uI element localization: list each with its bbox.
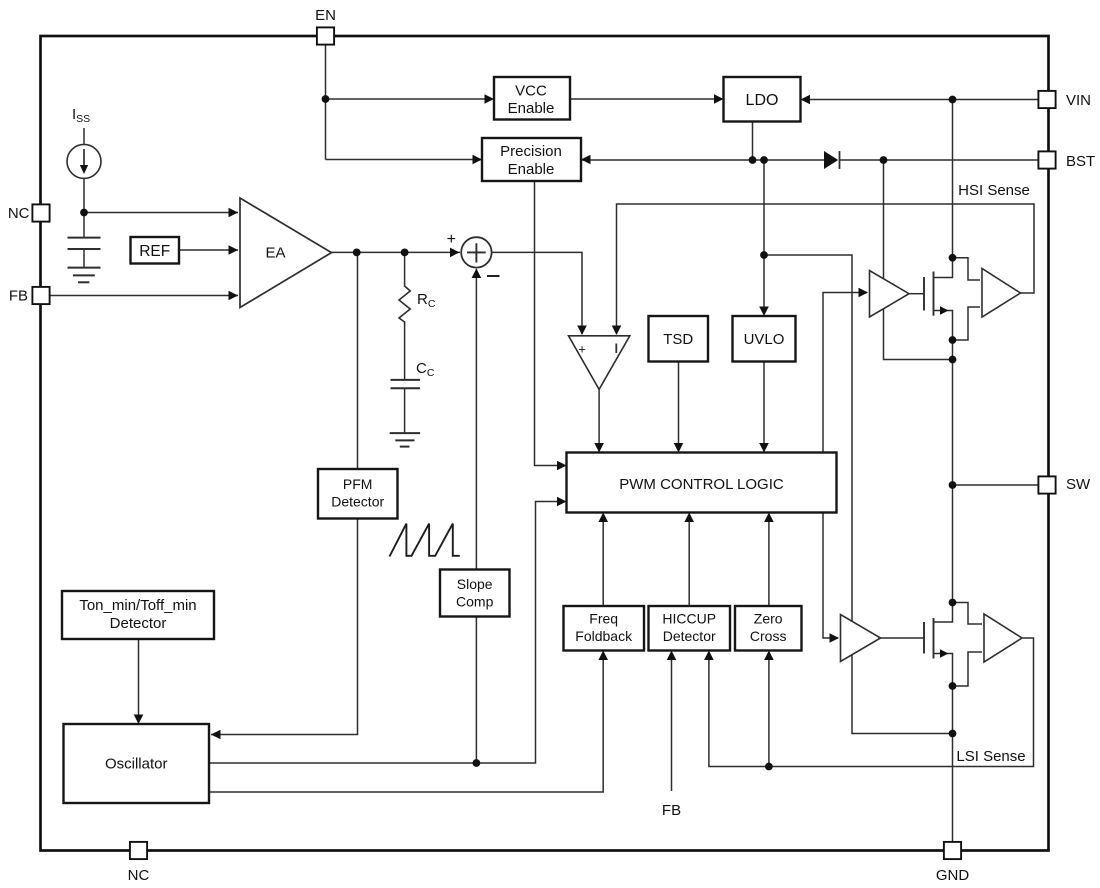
- pin BST: [1038, 151, 1055, 168]
- node BST driver: [880, 156, 888, 164]
- wire Ton detector to oscillator: [138, 639, 140, 722]
- svg-text:HSI Sense: HSI Sense: [958, 182, 1030, 199]
- arrow into PWM from comparator: [594, 443, 604, 453]
- arrow into Precision Enable right: [581, 155, 591, 165]
- wire oscillator to PWM: [209, 502, 565, 764]
- node ISS: [80, 209, 88, 217]
- wire ISS node to EA: [84, 212, 238, 214]
- wire TSD to PWM: [678, 362, 680, 451]
- wire PWM to HSI driver: [823, 293, 867, 453]
- arrow into oscillator top: [134, 715, 144, 725]
- wire EA to PFM detector: [357, 252, 359, 470]
- wire Zero Cross to PWM: [768, 515, 770, 607]
- label VIN: [1066, 92, 1091, 109]
- pin SW: [1038, 476, 1055, 493]
- block HICCUP Detector: [649, 606, 731, 651]
- label SW: [1066, 476, 1091, 493]
- block REF: [131, 237, 180, 264]
- arrow into PWM bottom 3: [764, 513, 774, 523]
- arrow into UVLO top: [759, 307, 769, 317]
- wire node to RC: [404, 252, 406, 283]
- svg-text:NC: NC: [8, 205, 30, 222]
- label plus summing: [447, 231, 456, 248]
- wire slope comp down: [475, 617, 477, 764]
- label NC left: [8, 205, 30, 222]
- svg-text:Comp: Comp: [456, 594, 494, 610]
- pin VIN: [1038, 91, 1055, 108]
- label RC: [417, 291, 436, 310]
- sense amp LSI: [953, 603, 1023, 687]
- svg-text:GND: GND: [936, 867, 970, 884]
- arrow into LSI driver: [830, 633, 840, 643]
- arrow into PWM from UVLO: [759, 443, 769, 453]
- svg-text:EA: EA: [265, 245, 285, 262]
- wire EN vertical: [325, 44, 327, 160]
- wire EA output: [332, 251, 461, 253]
- wire BST to HSI driver: [883, 160, 885, 279]
- svg-text:Precision: Precision: [500, 143, 562, 160]
- node UVLO branch: [760, 251, 768, 259]
- current source ISS: [67, 128, 101, 178]
- svg-text:EN: EN: [315, 7, 336, 24]
- arrow into EA in2: [229, 245, 239, 255]
- svg-text:Zero: Zero: [754, 611, 783, 627]
- wire VCC Enable to LDO: [570, 98, 722, 100]
- node EN branch: [322, 95, 330, 103]
- wire REF to EA: [179, 249, 238, 251]
- node LS gnd: [949, 730, 957, 738]
- wire slope comp to summing junction: [475, 269, 477, 570]
- svg-text:Oscillator: Oscillator: [105, 756, 168, 773]
- block Precision Enable: [482, 138, 581, 181]
- sense amp HSI: [953, 258, 1021, 340]
- ground CC: [390, 433, 420, 447]
- svg-text:Enable: Enable: [508, 161, 555, 178]
- wire VIN rail down: [952, 100, 954, 258]
- wire Freq Foldback to PWM: [602, 515, 604, 607]
- wire oscillator to Freq Foldback: [209, 653, 603, 793]
- block Freq Foldback: [564, 606, 645, 651]
- svg-text:PFM: PFM: [343, 476, 373, 492]
- block PWM CONTROL LOGIC: [567, 453, 837, 513]
- svg-text:Detector: Detector: [663, 628, 716, 644]
- wire comparator to PWM: [598, 389, 600, 450]
- arrow into LDO right: [801, 95, 811, 105]
- arrow into Precision Enable left: [473, 155, 483, 165]
- svg-text:NC: NC: [128, 867, 150, 884]
- node EA output 2: [401, 249, 409, 257]
- svg-text:LSI Sense: LSI Sense: [956, 748, 1025, 765]
- svg-text:Enable: Enable: [508, 100, 555, 117]
- svg-text:Detector: Detector: [110, 615, 167, 632]
- block LDO: [724, 77, 801, 122]
- summing junction: [461, 237, 491, 267]
- arrow into comparator I: [612, 326, 622, 336]
- block Oscillator: [64, 724, 210, 803]
- label LSI Sense: [956, 748, 1025, 765]
- arrow into summing bottom: [472, 269, 482, 279]
- arrow into PWM bottom 2: [684, 513, 694, 523]
- node HS source: [949, 336, 957, 344]
- svg-text:Detector: Detector: [331, 494, 384, 510]
- svg-text:HICCUP: HICCUP: [662, 611, 716, 627]
- arrow into EA in3: [229, 291, 239, 301]
- op-amp EA: [240, 198, 332, 308]
- label EN: [315, 7, 336, 24]
- label GND: [936, 867, 970, 884]
- wire HICCUP to PWM: [688, 515, 690, 607]
- arrow into PWM from TSD: [674, 443, 684, 453]
- diode bootstrap: [824, 151, 840, 169]
- node SW: [949, 481, 957, 489]
- wire zero cross branch: [768, 653, 770, 767]
- wire PWM to LSI driver: [823, 513, 838, 639]
- node LDO bottom: [749, 156, 757, 164]
- block PFM Detector: [318, 469, 398, 519]
- arrow into VCC Enable: [485, 94, 495, 104]
- label minus summing: [487, 275, 500, 277]
- MOSFET low-side: [881, 604, 953, 684]
- node HS drain: [949, 254, 957, 262]
- arrow into comparator plus: [577, 326, 587, 336]
- label FB bottom: [662, 802, 681, 819]
- arrow into PWM bottom 1: [598, 513, 608, 523]
- svg-text:FB: FB: [9, 288, 28, 305]
- arrow into summing left: [450, 248, 460, 258]
- pin NC left: [32, 204, 49, 221]
- svg-text:Ton_min/Toff_min: Ton_min/Toff_min: [79, 597, 196, 614]
- wire BST node to UVLO: [763, 160, 765, 314]
- wire VIN to LDO: [802, 99, 1039, 101]
- ground soft-start: [68, 268, 101, 283]
- capacitor CC: [391, 380, 421, 433]
- label HSI Sense: [958, 182, 1030, 199]
- svg-text:VIN: VIN: [1066, 92, 1091, 109]
- arrow into LDO left: [714, 94, 724, 104]
- arrow into HICCUP from LSI: [704, 651, 714, 661]
- wire HSI sense loop: [617, 204, 1035, 334]
- label CC: [416, 360, 435, 379]
- pin GND: [944, 842, 961, 859]
- arrow into Zero Cross: [764, 651, 774, 661]
- wire FB to EA: [49, 295, 238, 297]
- pin NC bottom: [130, 842, 147, 859]
- driver high-side: [870, 271, 910, 318]
- arrow into Freq Foldback: [598, 651, 608, 661]
- arrow into HICCUP from FB: [667, 651, 677, 661]
- svg-text:BST: BST: [1066, 153, 1095, 170]
- svg-text:+: +: [578, 342, 586, 357]
- block TSD: [649, 316, 709, 362]
- pin EN: [317, 27, 334, 44]
- svg-text:LDO: LDO: [746, 92, 779, 109]
- svg-text:Slope: Slope: [457, 576, 493, 592]
- label BST: [1066, 153, 1095, 170]
- label ISS: [72, 106, 90, 125]
- wire HSI driver return: [884, 309, 953, 360]
- svg-text:+: +: [447, 231, 456, 248]
- sawtooth waveform: [390, 524, 460, 557]
- wire LDO bottom stub: [752, 122, 754, 161]
- block VCC Enable: [494, 77, 570, 120]
- node HS return: [949, 356, 957, 364]
- capacitor soft-start: [68, 213, 101, 268]
- wire diode to Precision Enable: [581, 159, 824, 161]
- wire EN to VCC Enable: [326, 98, 493, 100]
- wire LS node to GND: [952, 734, 954, 843]
- svg-text:PWM CONTROL LOGIC: PWM CONTROL LOGIC: [619, 476, 784, 493]
- svg-text:VCC: VCC: [515, 83, 547, 100]
- node VIN branch: [949, 96, 957, 104]
- arrow into PWM left 2: [557, 497, 567, 507]
- arrow into PWM left 1: [557, 461, 567, 471]
- wire LSI sense loop: [709, 638, 1034, 767]
- label FB left: [9, 288, 28, 305]
- svg-text:REF: REF: [139, 243, 170, 260]
- wire LS source down: [952, 686, 954, 734]
- node zero cross: [765, 763, 773, 771]
- block UVLO: [733, 316, 796, 362]
- svg-text:TSD: TSD: [663, 331, 693, 348]
- block Slope Comp: [440, 570, 510, 617]
- block Zero Cross: [735, 606, 802, 651]
- wire SW pin wire: [953, 484, 1040, 486]
- label NC bottom: [128, 867, 150, 884]
- wire UVLO to PWM: [763, 362, 765, 451]
- driver low-side: [841, 615, 881, 662]
- wire PFM detector to oscillator: [211, 518, 358, 735]
- node UVLO feed: [760, 156, 768, 164]
- block Ton min Toff min Detector: [62, 591, 214, 639]
- wire HS source down: [952, 340, 954, 485]
- svg-text:Foldback: Foldback: [575, 628, 633, 644]
- wire SW down to LS drain: [952, 485, 954, 603]
- wire Precision Enable to PWM: [535, 181, 565, 466]
- node slope comp: [473, 759, 481, 767]
- wire FB to HICCUP: [671, 653, 673, 792]
- node LS drain: [949, 599, 957, 607]
- arrow into oscillator right: [211, 730, 221, 740]
- resistor RC: [399, 283, 410, 380]
- comparator PWM: [569, 336, 630, 390]
- svg-text:FB: FB: [662, 802, 681, 819]
- node EA output 1: [353, 249, 361, 257]
- wire UVLO node branch right: [764, 255, 953, 734]
- MOSFET high-side: [909, 259, 953, 338]
- wire ISS to node: [83, 178, 85, 212]
- svg-text:Freq: Freq: [589, 611, 618, 627]
- wire EN to Precision Enable: [326, 159, 482, 161]
- svg-text:UVLO: UVLO: [744, 331, 785, 348]
- node LS source: [949, 682, 957, 690]
- wire summing junction to comparator: [491, 252, 582, 334]
- wire BST to diode: [840, 159, 1039, 161]
- svg-text:Cross: Cross: [750, 628, 787, 644]
- arrow into EA in1: [229, 208, 239, 218]
- svg-text:SW: SW: [1066, 476, 1091, 493]
- pin FB: [32, 287, 49, 304]
- arrow into HSI driver: [859, 288, 869, 298]
